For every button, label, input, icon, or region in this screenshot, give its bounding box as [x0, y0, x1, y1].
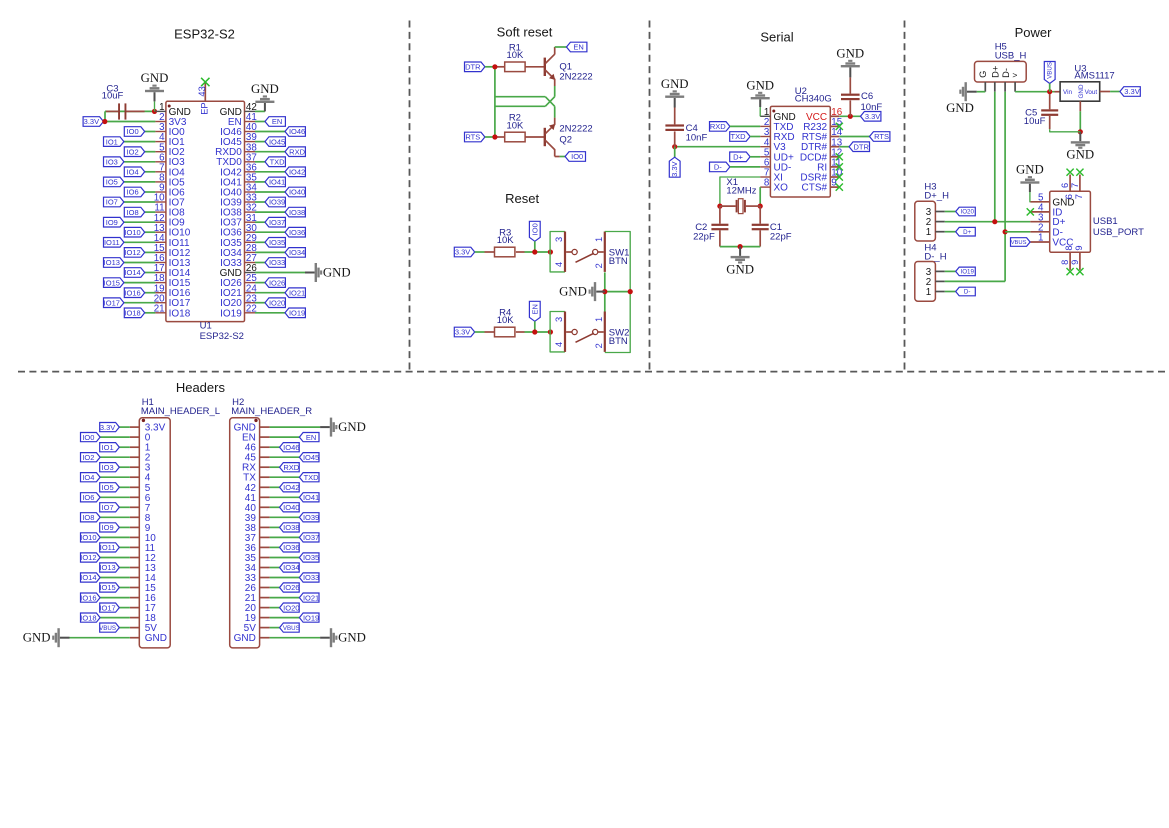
svg-text:10nF: 10nF — [861, 102, 883, 113]
svg-text:6: 6 — [1060, 183, 1070, 188]
svg-text:D+: D+ — [991, 66, 1001, 78]
svg-text:4: 4 — [554, 262, 564, 267]
svg-text:1: 1 — [926, 227, 931, 238]
svg-text:AMS1117: AMS1117 — [1074, 70, 1114, 81]
svg-text:GND: GND — [234, 633, 256, 644]
svg-text:2: 2 — [594, 343, 604, 348]
svg-text:IO21: IO21 — [303, 593, 319, 602]
svg-text:IO4: IO4 — [127, 168, 139, 177]
svg-text:GND: GND — [559, 285, 587, 299]
svg-text:IO18: IO18 — [80, 613, 96, 622]
svg-text:IO1: IO1 — [106, 137, 118, 146]
svg-text:Vin: Vin — [1063, 89, 1072, 96]
svg-text:G: G — [978, 71, 988, 78]
svg-text:22pF: 22pF — [693, 232, 715, 243]
svg-text:EN: EN — [272, 117, 282, 126]
svg-text:IO14: IO14 — [124, 268, 140, 277]
svg-text:3: 3 — [554, 317, 564, 322]
svg-text:Q2: Q2 — [559, 134, 572, 145]
svg-text:IO37: IO37 — [269, 218, 285, 227]
svg-text:IO19: IO19 — [220, 308, 242, 319]
svg-text:IO9: IO9 — [102, 523, 114, 532]
svg-text:GND: GND — [23, 631, 51, 645]
svg-text:IO10: IO10 — [124, 228, 140, 237]
svg-text:Serial: Serial — [760, 29, 793, 44]
svg-text:IO9: IO9 — [106, 218, 118, 227]
svg-text:IO13: IO13 — [104, 258, 120, 267]
svg-text:IO17: IO17 — [104, 298, 120, 307]
svg-text:IO36: IO36 — [283, 543, 299, 552]
svg-text:IO7: IO7 — [106, 198, 118, 207]
svg-text:IO41: IO41 — [269, 178, 285, 187]
svg-text:IO0: IO0 — [530, 223, 539, 235]
svg-text:BTN: BTN — [609, 336, 628, 347]
svg-text:IO5: IO5 — [106, 178, 118, 187]
svg-text:GND: GND — [726, 263, 754, 277]
svg-text:IO45: IO45 — [269, 137, 285, 146]
svg-text:3.3V: 3.3V — [100, 423, 115, 432]
svg-text:IO19: IO19 — [303, 613, 319, 622]
svg-text:IO6: IO6 — [82, 493, 94, 502]
svg-text:IO0: IO0 — [127, 127, 139, 136]
svg-text:IO39: IO39 — [303, 513, 319, 522]
svg-text:IO5: IO5 — [102, 483, 114, 492]
svg-text:IO38: IO38 — [283, 523, 299, 532]
svg-text:10uF: 10uF — [102, 91, 124, 102]
svg-text:GND: GND — [836, 46, 864, 60]
svg-text:IO7: IO7 — [102, 503, 114, 512]
svg-text:10K: 10K — [506, 120, 524, 131]
svg-text:VBUS: VBUS — [1047, 62, 1054, 79]
svg-text:RXD: RXD — [710, 122, 726, 131]
svg-text:IO34: IO34 — [289, 248, 305, 257]
svg-text:IO1: IO1 — [102, 443, 114, 452]
svg-text:IO39: IO39 — [269, 198, 285, 207]
svg-text:EN: EN — [530, 304, 539, 314]
svg-text:2: 2 — [594, 263, 604, 268]
svg-text:GND: GND — [1078, 84, 1085, 98]
svg-text:D-_H: D-_H — [924, 252, 946, 263]
svg-text:12MHz: 12MHz — [726, 186, 756, 197]
svg-text:TXD: TXD — [270, 157, 286, 166]
svg-text:TXD: TXD — [304, 473, 320, 482]
svg-text:3.3V: 3.3V — [84, 117, 99, 126]
svg-text:IO42: IO42 — [283, 483, 299, 492]
svg-text:USB_PORT: USB_PORT — [1093, 227, 1144, 238]
svg-text:IO20: IO20 — [283, 603, 299, 612]
svg-text:IO38: IO38 — [289, 208, 305, 217]
svg-text:IO35: IO35 — [303, 553, 319, 562]
svg-text:IO41: IO41 — [303, 493, 319, 502]
svg-text:1: 1 — [594, 317, 604, 322]
svg-text:IO20: IO20 — [960, 209, 974, 216]
svg-text:EN: EN — [306, 433, 316, 442]
svg-text:IO19: IO19 — [960, 269, 974, 276]
svg-text:10uF: 10uF — [1024, 116, 1046, 127]
svg-text:GND: GND — [251, 82, 279, 96]
svg-text:IO2: IO2 — [127, 147, 139, 156]
svg-text:21: 21 — [154, 303, 165, 314]
svg-text:D-: D- — [714, 163, 722, 172]
svg-text:10K: 10K — [506, 50, 524, 61]
svg-text:D+_H: D+_H — [924, 191, 949, 202]
svg-text:D-: D- — [964, 289, 971, 296]
svg-text:8: 8 — [1064, 245, 1074, 250]
svg-text:9: 9 — [1074, 245, 1084, 250]
svg-text:BTN: BTN — [609, 256, 628, 267]
svg-text:RTS: RTS — [874, 132, 889, 141]
svg-text:Vout: Vout — [1085, 89, 1098, 96]
svg-text:IO6: IO6 — [127, 188, 139, 197]
svg-text:DTR: DTR — [465, 63, 481, 72]
svg-text:Reset: Reset — [505, 191, 539, 206]
svg-text:GND: GND — [1016, 163, 1044, 177]
svg-text:GND: GND — [323, 265, 351, 279]
svg-text:IO14: IO14 — [80, 573, 96, 582]
svg-text:3: 3 — [554, 237, 564, 242]
svg-text:IO10: IO10 — [80, 533, 96, 542]
svg-text:Power: Power — [1015, 25, 1053, 40]
svg-text:4: 4 — [554, 342, 564, 347]
svg-text:3.3V: 3.3V — [865, 112, 880, 121]
svg-text:GND: GND — [145, 633, 167, 644]
svg-text:22pF: 22pF — [770, 232, 792, 243]
svg-text:RXD: RXD — [289, 147, 305, 156]
svg-text:IO3: IO3 — [106, 157, 118, 166]
svg-text:IO2: IO2 — [82, 453, 94, 462]
svg-text:IO35: IO35 — [269, 238, 285, 247]
svg-text:7: 7 — [1074, 194, 1084, 199]
svg-text:DTR: DTR — [853, 142, 869, 151]
svg-text:IO33: IO33 — [269, 258, 285, 267]
svg-text:IO33: IO33 — [303, 573, 319, 582]
svg-text:10K: 10K — [497, 235, 515, 246]
svg-text:9: 9 — [831, 178, 836, 189]
svg-text:3.3V: 3.3V — [670, 161, 679, 176]
svg-text:IO42: IO42 — [289, 168, 305, 177]
svg-text:43: 43 — [197, 86, 207, 96]
svg-text:9: 9 — [1070, 260, 1080, 265]
svg-text:ESP32-S2: ESP32-S2 — [174, 26, 235, 41]
svg-text:CH340G: CH340G — [795, 94, 832, 105]
svg-text:IO19: IO19 — [289, 309, 305, 318]
svg-text:3.3V: 3.3V — [1124, 87, 1139, 96]
svg-text:EN: EN — [573, 43, 583, 52]
svg-text:3.3V: 3.3V — [455, 328, 470, 337]
svg-text:IO0: IO0 — [82, 433, 94, 442]
svg-text:IO34: IO34 — [283, 563, 299, 572]
svg-text:IO8: IO8 — [82, 513, 94, 522]
svg-text:7: 7 — [1070, 183, 1080, 188]
svg-text:RTS: RTS — [465, 133, 480, 142]
svg-text:C6: C6 — [861, 91, 873, 102]
svg-text:IO0: IO0 — [571, 152, 583, 161]
svg-text:IO45: IO45 — [303, 453, 319, 462]
svg-text:ESP32-S2: ESP32-S2 — [200, 331, 244, 342]
svg-text:IO3: IO3 — [102, 463, 114, 472]
svg-text:RXD: RXD — [283, 463, 299, 472]
svg-text:2N2222: 2N2222 — [559, 71, 592, 82]
svg-text:IO15: IO15 — [104, 278, 120, 287]
svg-text:IO40: IO40 — [283, 503, 299, 512]
svg-text:22: 22 — [246, 303, 257, 314]
svg-text:IO12: IO12 — [124, 248, 140, 257]
svg-text:IO18: IO18 — [169, 308, 191, 319]
svg-text:VBUS: VBUS — [283, 625, 300, 632]
svg-text:IO4: IO4 — [82, 473, 94, 482]
svg-text:IO8: IO8 — [127, 208, 139, 217]
svg-text:3.3V: 3.3V — [455, 248, 470, 257]
svg-text:IO37: IO37 — [303, 533, 319, 542]
svg-text:GND: GND — [1066, 148, 1094, 162]
svg-text:IO16: IO16 — [80, 593, 96, 602]
svg-text:IO15: IO15 — [99, 583, 115, 592]
svg-text:1: 1 — [594, 237, 604, 242]
svg-text:IO46: IO46 — [289, 127, 305, 136]
svg-text:10nF: 10nF — [686, 133, 708, 144]
svg-text:IO11: IO11 — [104, 238, 120, 247]
svg-text:GND: GND — [746, 78, 774, 92]
svg-text:D-: D- — [1001, 68, 1011, 78]
svg-text:IO17: IO17 — [99, 603, 115, 612]
svg-text:>: > — [1012, 70, 1017, 80]
svg-text:10K: 10K — [497, 315, 515, 326]
svg-text:Headers: Headers — [176, 380, 226, 395]
svg-text:IO46: IO46 — [283, 443, 299, 452]
svg-text:6: 6 — [1064, 194, 1074, 199]
svg-text:IO26: IO26 — [283, 583, 299, 592]
svg-text:1: 1 — [926, 287, 931, 298]
svg-text:D+: D+ — [733, 153, 743, 162]
svg-text:XO: XO — [774, 183, 789, 194]
svg-text:IO13: IO13 — [99, 563, 115, 572]
svg-text:IO11: IO11 — [100, 543, 116, 552]
svg-text:IO18: IO18 — [124, 309, 140, 318]
svg-text:EP: EP — [200, 102, 210, 114]
svg-text:USB1: USB1 — [1093, 216, 1118, 227]
svg-text:1: 1 — [1038, 233, 1043, 244]
svg-text:2N2222: 2N2222 — [559, 124, 592, 135]
svg-text:MAIN_HEADER_L: MAIN_HEADER_L — [141, 406, 220, 417]
svg-text:MAIN_HEADER_R: MAIN_HEADER_R — [231, 406, 312, 417]
svg-text:VBUS: VBUS — [99, 625, 116, 632]
svg-text:GND: GND — [338, 420, 366, 434]
svg-text:GND: GND — [141, 71, 169, 85]
svg-text:8: 8 — [764, 178, 770, 189]
svg-text:IO16: IO16 — [124, 288, 140, 297]
svg-text:IO40: IO40 — [289, 188, 305, 197]
svg-text:GND: GND — [946, 101, 974, 115]
svg-text:USB_H: USB_H — [995, 51, 1027, 62]
svg-text:D+: D+ — [963, 229, 971, 236]
svg-text:CTS#: CTS# — [802, 183, 828, 194]
svg-text:IO21: IO21 — [289, 288, 305, 297]
svg-text:IO36: IO36 — [289, 228, 305, 237]
svg-text:8: 8 — [1060, 260, 1070, 265]
svg-text:VBUS: VBUS — [1011, 240, 1027, 246]
svg-text:IO26: IO26 — [269, 278, 285, 287]
svg-text:GND: GND — [661, 77, 689, 91]
svg-text:TXD: TXD — [731, 132, 747, 141]
svg-text:IO12: IO12 — [80, 553, 96, 562]
svg-text:GND: GND — [338, 631, 366, 645]
svg-text:IO20: IO20 — [269, 298, 285, 307]
svg-text:Soft reset: Soft reset — [497, 24, 553, 39]
